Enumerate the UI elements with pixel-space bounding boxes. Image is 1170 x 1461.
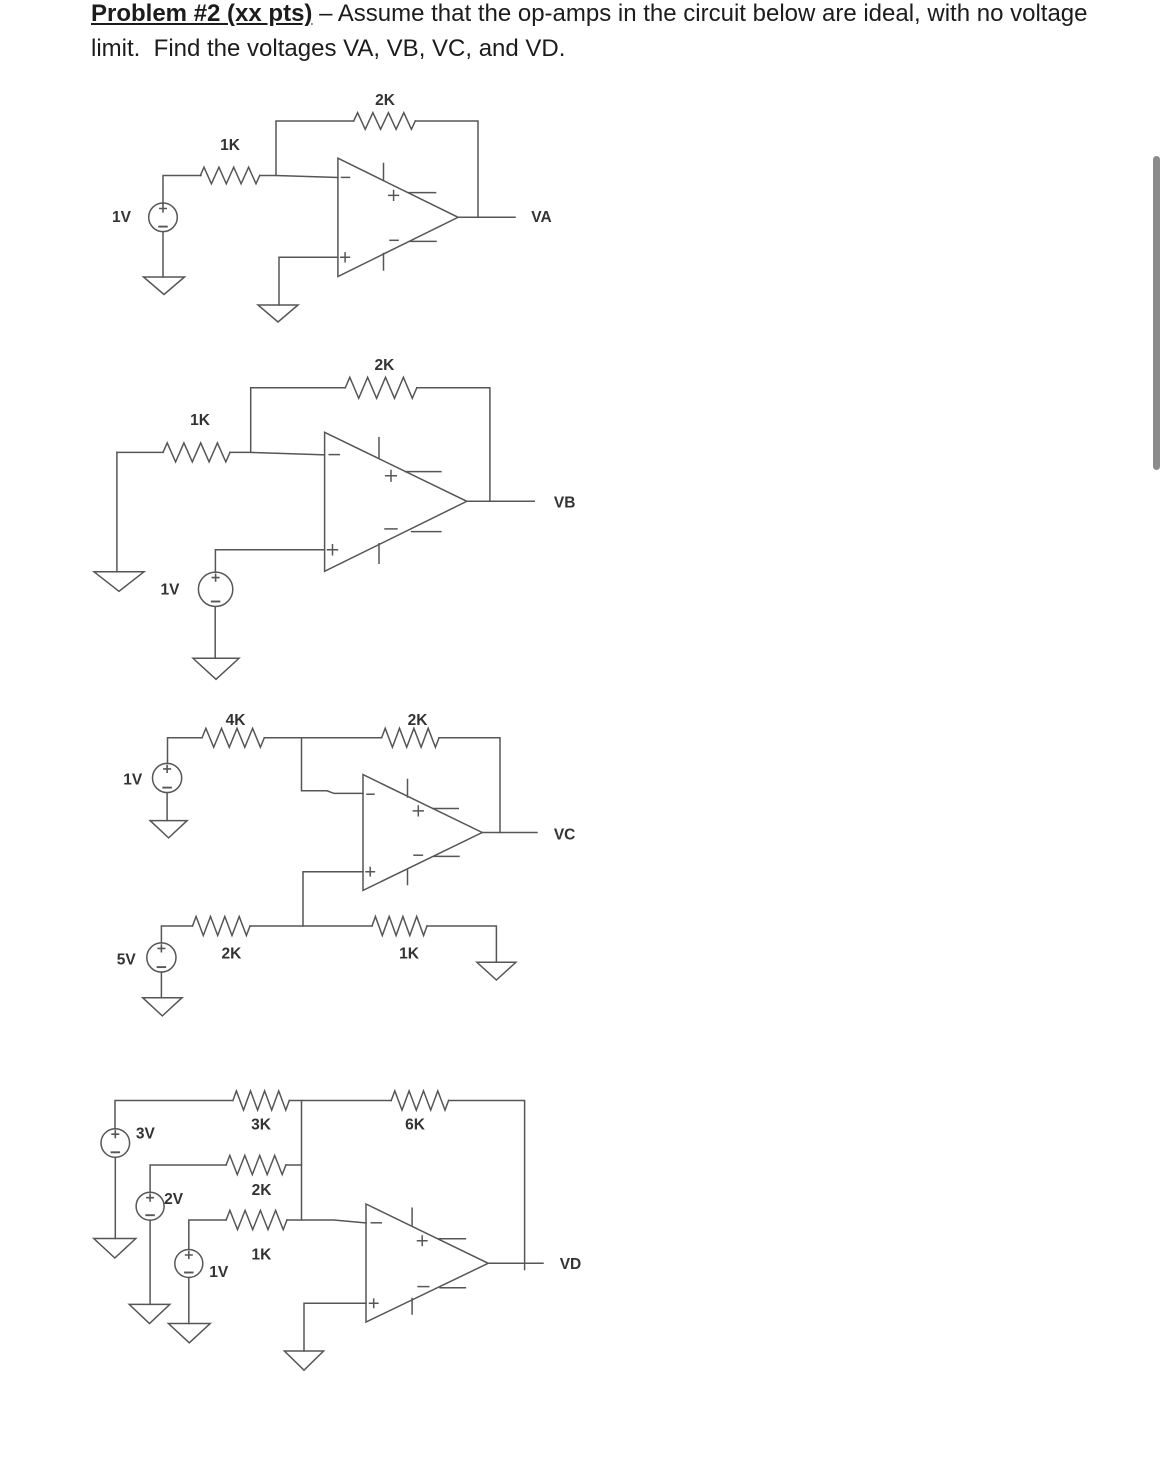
U1 inverting input label	[342, 176, 350, 178]
wire non-inverting input to node N4	[303, 872, 363, 926]
svg-text:4K: 4K	[226, 712, 247, 729]
svg-text:3V: 3V	[136, 1126, 156, 1143]
svg-text:1V: 1V	[123, 772, 143, 789]
wire node N1 up to feedback	[276, 121, 354, 176]
ground G7	[477, 962, 516, 980]
ground G1	[144, 277, 185, 295]
wire R11 to node bus	[286, 1164, 302, 1166]
U2 V- supply lead	[412, 531, 441, 533]
wire R2 to output node	[415, 121, 478, 217]
wire source V5 to resistor R9	[115, 1101, 232, 1130]
ground G11	[284, 1351, 323, 1370]
voltage source V3 1V	[153, 763, 182, 792]
U2 V+ supply lead	[405, 471, 441, 473]
resistor 2K (R11)	[226, 1155, 286, 1174]
svg-text:5V: 5V	[117, 952, 137, 969]
svg-text:1V: 1V	[161, 582, 181, 599]
U3 V+ supply lead	[433, 808, 458, 810]
resistor 1K (R3)	[163, 443, 230, 462]
svg-text:1K: 1K	[251, 1247, 272, 1264]
resistor 2K (R6) feedback	[382, 728, 439, 747]
U4 V- supply lead	[440, 1287, 465, 1289]
voltage source V7 1V	[175, 1250, 203, 1278]
wire node N3 down to inverting input	[302, 738, 364, 794]
wire V3 to ground	[166, 793, 168, 821]
U1 supply - label	[390, 239, 398, 241]
svg-text:VD: VD	[560, 1256, 582, 1273]
voltage source V4 5V	[147, 943, 176, 972]
wire V6 to ground	[149, 1220, 151, 1304]
voltage source V6 2V	[136, 1192, 164, 1220]
wire source V7 to resistor R12	[189, 1220, 226, 1250]
U3 V- supply tick	[407, 870, 409, 884]
wire node N2 up to feedback	[251, 388, 346, 453]
resistor 6K (R10) feedback	[391, 1091, 448, 1110]
svg-text:2K: 2K	[221, 946, 242, 963]
U2 inverting input label	[329, 454, 339, 456]
resistor 2K (R4) feedback	[345, 377, 417, 398]
scrollbar thumb	[1153, 156, 1160, 470]
svg-text:2K: 2K	[375, 92, 396, 109]
resistor 2K (R2) feedback	[354, 113, 416, 130]
U1 V+ supply lead	[409, 192, 436, 194]
U3 V+ supply tick	[407, 780, 409, 798]
op-amp U3	[363, 775, 482, 891]
wire V2 to ground	[214, 607, 216, 658]
wire left leg to ground	[116, 452, 118, 571]
U3 inverting input label	[367, 793, 374, 795]
wire source V3 to resistor R5	[168, 738, 203, 763]
wire U1 output VA	[458, 216, 515, 218]
wire source V1 to resistor R1	[163, 176, 201, 205]
svg-text:2K: 2K	[408, 712, 429, 729]
svg-text:6K: 6K	[405, 1117, 426, 1134]
U1 supply + label	[389, 191, 399, 201]
title text	[91, 0, 1088, 66]
U3 supply + label	[413, 806, 423, 816]
svg-text:1K: 1K	[190, 412, 211, 429]
ground G9	[129, 1304, 170, 1323]
wire U2 output VB	[467, 500, 534, 502]
ground G10	[168, 1324, 210, 1343]
ground G8	[94, 1239, 136, 1259]
svg-text:3K: 3K	[251, 1117, 272, 1134]
ground G3	[94, 572, 144, 592]
wire source V6 to resistor R11	[150, 1165, 226, 1193]
wire R4 to output node	[417, 388, 490, 502]
wire non-inverting input to ground	[279, 257, 338, 305]
ground G4	[193, 658, 239, 679]
svg-text:1V: 1V	[112, 209, 132, 226]
resistor 1K (R12)	[226, 1210, 287, 1229]
wire R1 to op-amp inverting input, node N1	[260, 176, 338, 178]
resistor 3K (R9)	[233, 1091, 289, 1110]
node bus N5 vertical	[301, 1101, 303, 1221]
wire V5 to ground	[114, 1157, 116, 1238]
svg-text:VC: VC	[554, 827, 576, 844]
wire U4 output VD	[488, 1262, 543, 1264]
voltage source V5 3V	[101, 1129, 130, 1158]
wire R3 to op-amp inverting input, node N2	[230, 452, 325, 454]
wire R8 to ground	[427, 926, 496, 962]
wire non-inverting input to ground	[304, 1303, 366, 1351]
U2 V- supply tick	[378, 544, 380, 563]
ground G2	[258, 305, 298, 322]
wire U3 output VC	[482, 832, 537, 834]
svg-text:2V: 2V	[164, 1191, 184, 1208]
wire R6 to output node	[439, 738, 500, 833]
U4 V- supply tick	[411, 1299, 413, 1315]
U2 supply + label	[386, 471, 397, 482]
svg-text:2K: 2K	[252, 1182, 273, 1199]
svg-text:VB: VB	[554, 495, 576, 512]
wire source V4 to resistor R7	[161, 926, 192, 943]
voltage source V2 1V	[198, 572, 232, 606]
U4 supply + label	[418, 1236, 427, 1245]
wire R10 to output node	[449, 1101, 525, 1270]
U3 V- supply lead	[434, 855, 459, 857]
wire R7 to node N4	[250, 925, 372, 927]
wire R9 to node N5	[289, 1100, 391, 1102]
wire R12 to op-amp inverting input	[287, 1220, 366, 1223]
U4 V+ supply tick	[411, 1208, 413, 1225]
U4 inverting input label	[371, 1222, 381, 1224]
resistor 1K (R8)	[372, 917, 427, 936]
wire non-inverting input to source V2	[215, 550, 324, 572]
op-amp U2	[325, 432, 467, 571]
U4 non-inverting input label	[370, 1299, 378, 1307]
U4 supply - label	[418, 1286, 429, 1288]
wire R5 to node N3	[264, 737, 381, 739]
ground G6	[143, 998, 182, 1016]
svg-text:1K: 1K	[399, 946, 420, 963]
voltage source V1 1V	[149, 203, 178, 232]
U1 non-inverting input label	[341, 253, 350, 262]
resistor 1K (R1)	[200, 167, 259, 184]
U2 V+ supply tick	[378, 438, 380, 459]
svg-text:2K: 2K	[374, 357, 395, 374]
U2 non-inverting input label	[328, 545, 338, 555]
U1 V- supply tick	[383, 254, 385, 271]
U2 supply - label	[385, 528, 397, 530]
op-amp U4	[366, 1204, 488, 1322]
wire V1 to ground	[162, 232, 164, 277]
svg-text:1K: 1K	[220, 137, 241, 154]
ground G5	[150, 821, 187, 838]
resistor 4K (R5)	[202, 728, 264, 747]
U3 supply - label	[414, 854, 422, 856]
wire V4 to ground	[160, 972, 162, 998]
U3 non-inverting input label	[366, 868, 374, 876]
U1 V- supply lead	[410, 240, 436, 242]
U4 V+ supply lead	[439, 1238, 466, 1240]
resistor 2K (R7)	[193, 917, 251, 936]
U1 V+ supply tick	[383, 164, 385, 181]
wire V7 to ground	[188, 1278, 190, 1324]
svg-text:VA: VA	[531, 209, 551, 226]
wire left leg to resistor R3	[117, 451, 163, 453]
svg-text:1V: 1V	[209, 1264, 229, 1281]
op-amp U1	[338, 158, 458, 276]
